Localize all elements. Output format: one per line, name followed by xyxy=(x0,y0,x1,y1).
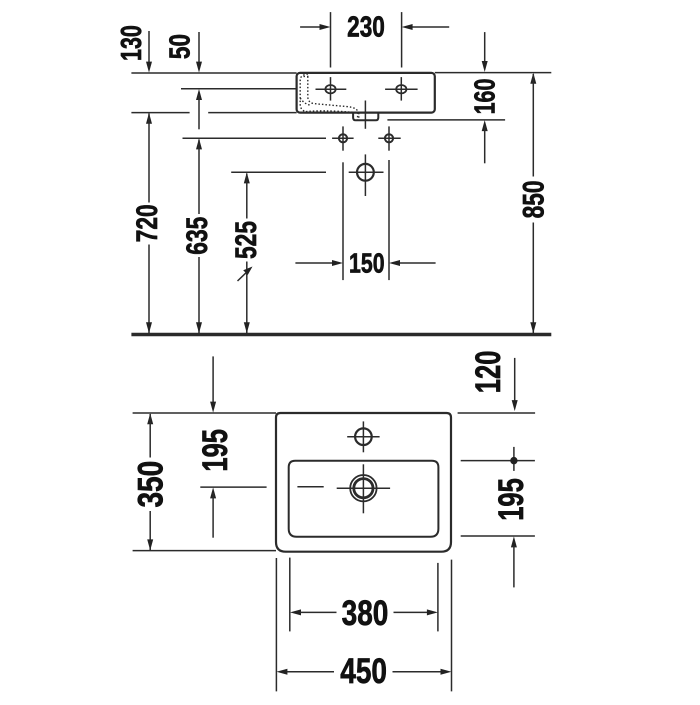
plan outer body xyxy=(276,413,451,552)
dim 50 lower arrow xyxy=(196,89,202,100)
dim 195 left upper arrow xyxy=(212,356,214,403)
overflow mark in bowl xyxy=(297,486,323,488)
dashed hidden profile outer xyxy=(300,74,308,112)
svg-text:130: 130 xyxy=(116,25,148,61)
drain tab xyxy=(353,113,378,121)
floor line xyxy=(131,333,551,336)
dim 230 extension line right xyxy=(401,12,403,67)
rim reference line left xyxy=(131,72,296,74)
dashed hidden elbow xyxy=(300,98,311,105)
dim 230 extension line left xyxy=(330,12,332,67)
dashed hidden profile underside xyxy=(306,111,356,113)
centerline through tab xyxy=(364,101,366,129)
fixing holes extension line right xyxy=(388,160,390,280)
160 bottom reference line xyxy=(387,119,505,121)
svg-text:150: 150 xyxy=(349,248,384,280)
525 reference line xyxy=(231,171,326,173)
fixing holes extension line left xyxy=(342,162,344,280)
svg-text:450: 450 xyxy=(340,651,387,691)
dim 635 line xyxy=(196,138,202,149)
svg-text:160: 160 xyxy=(469,79,501,115)
plan inner bowl xyxy=(289,461,439,537)
leader arrow near 525 xyxy=(238,273,247,281)
dim 150 arrow right xyxy=(398,262,436,264)
dim 50 upper arrow xyxy=(198,32,200,63)
svg-text:120: 120 xyxy=(469,351,508,394)
dim 150 arrow left xyxy=(295,262,334,264)
bolt hole ellipse 2 xyxy=(396,85,406,93)
dim 525 line xyxy=(244,172,250,183)
centerline below siphon xyxy=(364,154,366,196)
dim 130 upper arrow xyxy=(148,31,150,63)
plan extension line bowl bottom right xyxy=(461,535,535,537)
extension 450 right xyxy=(451,560,453,692)
dim 160 lower arrow xyxy=(482,120,488,131)
fixing hole circle 2 xyxy=(385,134,393,142)
dim 380 xyxy=(290,609,301,615)
basin bottom reference line xyxy=(131,112,189,114)
dim 195 left lower arrow xyxy=(210,487,216,498)
plan extension line bottom left xyxy=(133,550,276,552)
dim 720 line xyxy=(146,113,152,124)
635 reference line xyxy=(183,137,327,139)
dim 120 xyxy=(514,358,516,403)
svg-text:380: 380 xyxy=(342,593,389,633)
bolt hole ellipse 1 xyxy=(325,85,335,93)
svg-text:525: 525 xyxy=(229,221,263,259)
dashed hidden pipe in tab xyxy=(358,113,360,120)
extension 380 left xyxy=(289,558,291,632)
svg-text:195: 195 xyxy=(196,429,235,472)
plan extension line top right xyxy=(458,412,535,414)
dim 195 right with dot xyxy=(513,447,515,471)
dim 160 upper arrow xyxy=(484,32,486,63)
rim reference line right xyxy=(435,72,552,74)
drain outer circle xyxy=(350,475,376,501)
dim 230 arrow right xyxy=(411,26,449,28)
plan extension line top left xyxy=(133,412,276,414)
fixing hole circle 1 xyxy=(339,134,347,142)
dashed hidden profile top xyxy=(304,75,310,77)
svg-text:195: 195 xyxy=(492,478,531,521)
svg-text:50: 50 xyxy=(163,34,196,59)
svg-text:350: 350 xyxy=(131,461,171,508)
extension 380 right xyxy=(437,563,439,632)
50 reference line xyxy=(181,88,297,90)
dim 850 line xyxy=(530,73,536,84)
plan extension line drain level left xyxy=(200,486,266,488)
plan extension line dot level right xyxy=(461,460,535,462)
svg-text:850: 850 xyxy=(517,180,551,218)
dashed hidden profile inner xyxy=(308,76,358,119)
basin body side view xyxy=(297,73,435,113)
svg-text:635: 635 xyxy=(180,217,214,255)
dim 230 arrow left xyxy=(300,26,321,28)
dim 450 xyxy=(276,669,287,675)
svg-text:230: 230 xyxy=(347,10,385,43)
faucet hole xyxy=(355,428,372,445)
siphon circle xyxy=(357,164,374,181)
dim 350 xyxy=(147,413,153,424)
svg-text:720: 720 xyxy=(130,204,164,242)
extension 450 left xyxy=(275,558,277,691)
drain inner circle xyxy=(354,479,373,498)
